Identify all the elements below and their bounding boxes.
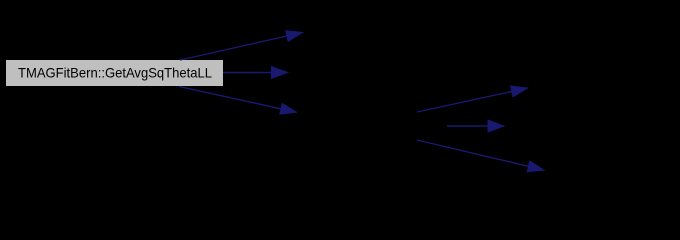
edge GetAvgSqThetaLL -> GetEstNoEdgeLL (wire) xyxy=(223,67,288,79)
node TMAGFitBern::GetAvgThetaLL (invisible on black) xyxy=(302,20,493,46)
edge GetAvgSqThetaLL -> GetProbPhi (wire) xyxy=(179,87,297,115)
svg-text:TMAGFitBern::GetAvgSqThetaLL: TMAGFitBern::GetAvgSqThetaLL xyxy=(18,65,212,81)
edge GetProbPhi -> GetThetaLL (wire) xyxy=(447,120,504,132)
node TMAGFitBern::GetThetaLL (invisible on black) xyxy=(495,113,662,139)
edge GetProbPhi -> GetSqThetaLL (wire) xyxy=(417,140,544,172)
node TMAGFitBern::GetProbPhi (middle, invisible on black) xyxy=(289,113,455,140)
node TMAGFitBern::GetSqThetaLL (invisible on black) xyxy=(518,157,680,183)
svg-text:TMAGFitBern::GetThetaLL: TMAGFitBern::GetThetaLL xyxy=(495,117,662,133)
node TMAGFitBern::GetProbMu (invisible on black) xyxy=(518,75,680,101)
edge GetAvgSqThetaLL -> GetAvgThetaLL (wire) xyxy=(180,31,303,60)
svg-text:TMAGFitBern::GetProbMu: TMAGFitBern::GetProbMu xyxy=(518,79,680,95)
edge GetProbPhi -> GetProbMu (wire) xyxy=(417,86,528,112)
svg-text:TMAGFitBern::GetEstNoEdgeLL: TMAGFitBern::GetEstNoEdgeLL xyxy=(282,64,485,80)
svg-text:TMAGFitBern::GetAvgThetaLL: TMAGFitBern::GetAvgThetaLL xyxy=(302,24,493,40)
node TMAGFitBern::GetAvgSqThetaLL (focused, grey) xyxy=(6,60,223,86)
svg-text:TMAGFitBern::GetProbPhi: TMAGFitBern::GetProbPhi xyxy=(289,117,455,133)
node TMAGFitBern::GetEstNoEdgeLL (invisible on black) xyxy=(282,60,485,86)
